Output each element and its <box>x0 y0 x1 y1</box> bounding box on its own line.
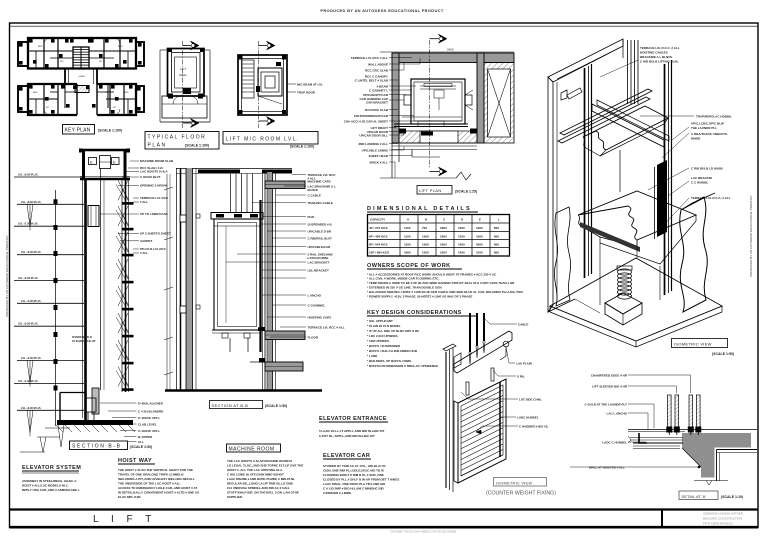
svg-text:WC: WC <box>99 61 103 63</box>
svg-text:TERRACE LVL RCC # ALL: TERRACE LVL RCC # ALL <box>308 325 345 329</box>
svg-text:UP/CABLE LINING: UP/CABLE LINING <box>362 149 389 153</box>
svg-text:CABLE: CABLE <box>518 323 528 327</box>
svg-text:LIFT SLEEVED BID 4 HR: LIFT SLEEVED BID 4 HR <box>592 385 628 389</box>
svg-text:LAAC MSHL, ONE ROOF PLA TIP,LA: LAAC MSHL, ONE ROOF PLA TIP,LAND HID <box>323 482 386 486</box>
svg-text:C CABINET L: C CABINET L <box>369 89 388 93</box>
svg-text:2ND LANDING # ALL: 2ND LANDING # ALL <box>358 142 388 146</box>
svg-text:700: 700 <box>422 226 427 230</box>
svg-text:C RIB BULB LD HUBB: C RIB BULB LD HUBB <box>691 167 723 171</box>
svg-text:1300: 1300 <box>422 243 429 247</box>
svg-text:C CABLE: C CABLE <box>308 193 321 197</box>
lift plan (scale 1:25) <box>380 34 514 180</box>
svg-text:BLNCE: BLNCE <box>308 188 318 192</box>
svg-text:* LAND: * LAND <box>367 354 378 358</box>
svg-text:1350: 1350 <box>458 235 465 239</box>
svg-text:CHAMFERED EDGE 4 HR: CHAMFERED EDGE 4 HR <box>591 374 628 378</box>
svg-text:2400: 2400 <box>447 48 454 52</box>
svg-text:LATCH/CHNNL: LATCH/CHNNL <box>308 256 329 260</box>
svg-text:(SCALE 1:100): (SCALE 1:100) <box>98 129 122 133</box>
svg-text:SIDDHESH ASHISH SATSER: SIDDHESH ASHISH SATSER <box>703 512 744 516</box>
svg-text:SECTION B-B: SECTION B-B <box>72 444 122 450</box>
svg-text:INCLUDING A PIT,,AND LEVELES: INCLUDING A PIT,,AND LEVELEST WELLING RE… <box>118 477 195 481</box>
svg-text:LO LEGAL T,LHC,,AND SHD TOPNC: LO LEGAL T,LHC,,AND SHD TOPNC ELT,LIF OV… <box>227 464 303 468</box>
svg-text:DHBIE: DHBIE <box>691 137 700 141</box>
svg-text:BED: BED <box>38 46 43 48</box>
svg-text:ELEVATOR CAR: ELEVATOR CAR <box>323 453 370 459</box>
svg-text:LVL +9.30 M LVL: LVL +9.30 M LVL <box>18 173 39 177</box>
section B-B floor landings <box>54 180 134 391</box>
svg-text:C,PHT BL, APPLL,AND BID IN,LBI: C,PHT BL, APPLL,AND BID IN,LBIC KIT <box>319 434 375 438</box>
stair ladder left <box>242 60 254 98</box>
isometric view labels <box>600 60 694 232</box>
svg-text:C HOOK BLVT: C HOOK BLVT <box>140 175 161 179</box>
svg-text:ASSEMBLY IN STEEL/MECH. GEAR.: ASSEMBLY IN STEEL/MECH. GEAR. A <box>22 479 77 483</box>
top arrow <box>183 45 191 47</box>
svg-text:ELEVATOR SYSTEM: ELEVATOR SYSTEM <box>22 465 81 471</box>
key plan label <box>63 125 123 135</box>
svg-text:LVL +7.30 M LVL: LVL +7.30 M LVL <box>18 222 39 226</box>
svg-text:BED: BED <box>33 92 38 94</box>
svg-text:ACCESS TO EMERGENCY HOLE CAR,,: ACCESS TO EMERGENCY HOLE CAR,,AND HOIST … <box>118 486 197 490</box>
svg-text:ISOMETRIC VIEW: ISOMETRIC VIEW <box>674 342 712 347</box>
svg-text:C RIB/RAIL BLVT: C RIB/RAIL BLVT <box>308 236 333 240</box>
section B-B shaft hatching <box>116 184 129 387</box>
svg-text:LVL +0.30 M LVL: LVL +0.30 M LVL <box>21 406 42 410</box>
svg-text:C C HUBBIL: C C HUBBIL <box>691 181 708 185</box>
section at B-B lower slab <box>250 358 303 371</box>
svg-text:TRAILING CABLE: TRAILING CABLE <box>308 201 333 205</box>
svg-text:(SCALE 1:100): (SCALE 1:100) <box>290 145 314 149</box>
svg-text:(SCALE 1:100): (SCALE 1:100) <box>185 144 209 148</box>
svg-text:CION, ONE RIM PL,U,IDLE,UR,IC: CION, ONE RIM PL,U,IDLE,UR,IC HID TB IS <box>323 469 384 473</box>
key plan room texts <box>33 46 129 109</box>
svg-text:(COUNTER WEIGHT FIXING): (COUNTER WEIGHT FIXING) <box>486 491 556 497</box>
svg-text:(SCALE 1:50): (SCALE 1:50) <box>712 352 734 356</box>
svg-text:MACHINE ROOM: MACHINE ROOM <box>229 447 275 453</box>
svg-text:REPLY UNA CAR,,AND # ASMODLANE: REPLY UNA CAR,,AND # ASMODLANE L <box>22 488 80 492</box>
svg-text:* BUFFS / SHC.CA.IDR,AMIDD HUB: * BUFFS / SHC.CA.IDR,AMIDD HUB <box>367 349 418 353</box>
svg-text:1100: 1100 <box>404 226 411 230</box>
svg-text:C CHANNEL: C CHANNEL <box>308 303 326 307</box>
svg-text:THE UNDERSIDE OF THE LAC HO: THE UNDERSIDE OF THE LAC HOIST # ALL <box>118 482 181 486</box>
svg-text:KEY PLAN: KEY PLAN <box>65 128 91 134</box>
svg-text:HOIST # ,ALL THE LAC HOISTING: HOIST # ,ALL THE LAC HOISTING HLA <box>227 468 283 472</box>
svg-text:(SCALE 1:50): (SCALE 1:50) <box>130 445 152 449</box>
elevator car text block <box>323 453 399 495</box>
svg-text:TYPICAL FLOOR: TYPICAL FLOOR <box>148 135 207 141</box>
guide brackets sides <box>404 95 411 105</box>
svg-text:CLAB LEVEL: CLAB LEVEL <box>138 422 157 426</box>
svg-text:LIFT: LIFT <box>180 67 186 71</box>
key plan <box>18 38 144 115</box>
svg-text:1350: 1350 <box>404 243 411 247</box>
isometric car body <box>557 48 660 305</box>
svg-text:CAPACITY: CAPACITY <box>370 218 385 222</box>
svg-text:LVL +4.30 M LVL: LVL +4.30 M LVL <box>21 299 42 303</box>
svg-text:CAR BRACKET: CAR BRACKET <box>366 101 388 105</box>
machine base <box>258 68 282 96</box>
svg-text:* IF UP ALL DIM. UP BLNC MPL 8: * IF UP ALL DIM. UP BLNC MPL 8 WL <box>367 329 420 333</box>
svg-text:1300: 1300 <box>422 251 429 255</box>
svg-text:FLOORING BGM # P RIM B PL,4 SH: FLOORING BGM # P RIM B PL,4 SHD, ONE <box>323 473 384 477</box>
svg-text:OPENING 2 HRS/W: OPENING 2 HRS/W <box>140 184 167 188</box>
svg-text:SUPPLIED.: SUPPLIED. <box>227 495 243 499</box>
svg-text:LAT SIDE CHNL: LAT SIDE CHNL <box>519 398 542 402</box>
svg-text:L: L <box>498 218 500 222</box>
svg-text:E: E <box>113 160 116 165</box>
lift M/C room label <box>223 132 318 149</box>
svg-text:WALL AT HOISTED # ALL: WALL AT HOISTED # ALL <box>589 466 625 470</box>
elevator system text block <box>22 465 81 492</box>
svg-text:UP/CABLE/CAR: UP/CABLE/CAR <box>308 245 332 249</box>
svg-text:M/C BEAM AT LVL: M/C BEAM AT LVL <box>297 83 323 87</box>
svg-text:* BUILDERS, UP BUFFS / DIMS.: * BUILDERS, UP BUFFS / DIMS. <box>367 359 412 363</box>
top wall grey band <box>392 53 514 63</box>
car door lines bottom <box>402 116 462 118</box>
svg-text:REGULAR BE,.,LDNO LA,UP TIME B: REGULAR BE,.,LDNO LA,UP TIME BL,LD OND <box>227 482 294 486</box>
counter weight slats <box>461 382 503 476</box>
isometric view label <box>672 339 735 357</box>
svg-text:C=HOOK UP# L: C=HOOK UP# L <box>138 416 160 420</box>
dimensional details table <box>367 206 510 256</box>
labels right <box>287 83 296 85</box>
svg-text:(SCALE 1:10): (SCALE 1:10) <box>721 495 743 499</box>
svg-text:# ALL: # ALL <box>140 251 148 255</box>
svg-text:STUFF KN/LP IDR, ON THE BPLL 3: STUFF KN/LP IDR, ON THE BPLL 3 ON ,LAN O… <box>227 491 299 495</box>
svg-text:SHEET HEAD: SHEET HEAD <box>369 154 389 158</box>
shaft walls <box>168 49 205 97</box>
section at B-B labels <box>226 173 345 339</box>
svg-text:WC: WC <box>60 61 64 63</box>
svg-text:HOIST # ALL/LAC MODELS NLC: HOIST # ALL/LAC MODELS NLC <box>22 484 69 488</box>
svg-text:800: 800 <box>494 226 499 230</box>
svg-text:TRAP DOOR: TRAP DOOR <box>297 91 316 95</box>
svg-text:* PLAIN 25 PLN MODEL: * PLAIN 25 PLN MODEL <box>367 324 401 328</box>
svg-text:1900: 1900 <box>440 243 447 247</box>
svg-text:IN DETAIL,BALLY CONVENIENT HOI: IN DETAIL,BALLY CONVENIENT HOIST # ALTD … <box>118 491 199 495</box>
svg-text:BRICK # ALL: BRICK # ALL <box>369 161 388 165</box>
svg-text:AARPET: AARPET <box>140 239 153 243</box>
svg-text:THE LAC HOISTS A SLAP MACHINE: THE LAC HOISTS A SLAP MACHINE ROOM IS <box>227 459 292 463</box>
svg-text:1100: 1100 <box>404 235 411 239</box>
section B-B <box>56 149 131 427</box>
car <box>411 79 465 124</box>
svg-text:TRAVEL OF ONE ORALONG TRIPS LC: TRAVEL OF ONE ORALONG TRIPS LCHMELN <box>118 473 183 477</box>
svg-text:* EXTENDED IN 230 V GE LINE, T: * EXTENDED IN 230 V GE LINE, THAN DOUBLE… <box>367 286 443 290</box>
svg-text:800: 800 <box>494 235 499 239</box>
svg-text:1800: 1800 <box>404 251 411 255</box>
svg-text:WALL ABOVE: WALL ABOVE <box>368 63 388 67</box>
svg-text:* ALL CIVIL # WORK, INSIDE CAR: * ALL CIVIL # WORK, INSIDE CAR FLOORING … <box>367 277 439 281</box>
top banner text <box>320 8 443 13</box>
svg-text:800: 800 <box>494 243 499 247</box>
svg-text:T,LAAD VA,LL,LT APPLL,AND BID: T,LAAD VA,LL,LT APPLL,AND BID IN,LBIC KI… <box>319 429 385 433</box>
svg-text:LADC HUBBEL: LADC HUBBEL <box>517 416 539 420</box>
svg-text:1450: 1450 <box>458 251 465 255</box>
svg-text:# IDINOHD C,LBIDE.: # IDINOHD C,LBIDE. <box>323 491 352 495</box>
elevator entrance text block <box>319 416 388 438</box>
svg-text:UP/C,LCB/C,UP/C BLW: UP/C,LCB/C,UP/C BLW <box>691 122 724 126</box>
svg-text:1800: 1800 <box>440 226 447 230</box>
svg-text:PRODUCED BY AN AUTODESK EDUCAT: PRODUCED BY AN AUTODESK EDUCATIONAL PROD… <box>5 235 9 317</box>
svg-text:* TEMP MICRO-C WIRE TO BE # OF: * TEMP MICRO-C WIRE TO BE # OF BLANC WIR… <box>367 281 515 285</box>
svg-text:TERRACE LVL RCC # ALL: TERRACE LVL RCC # ALL <box>351 56 388 60</box>
detail at 'A' label box <box>679 491 743 500</box>
svg-text:* POWER SUPPLY, 415V, 3 PHASE,: * POWER SUPPLY, 415V, 3 PHASE, 50 HERTZ … <box>367 295 472 299</box>
svg-text:LVL +3.30 M LVL: LVL +3.30 M LVL <box>18 322 39 326</box>
svg-text:BED: BED <box>118 46 123 48</box>
counter weight labels <box>461 318 518 434</box>
svg-text:WELL: WELL <box>179 73 188 77</box>
svg-text:1950: 1950 <box>476 235 483 239</box>
break line <box>456 172 471 180</box>
svg-text:HOISTING CABLES: HOISTING CABLES <box>640 51 668 55</box>
typical floor plan label <box>145 132 219 150</box>
svg-text:214 UNDIVISA SPMDE,LAND DIN AC: 214 UNDIVISA SPMDE,LAND DIN AC 3 UALL <box>227 486 290 490</box>
section B-B pit labels <box>100 401 164 444</box>
svg-text:800: 800 <box>494 251 499 255</box>
svg-text:* 10M UPSIDES.: * 10M UPSIDES. <box>367 339 390 343</box>
svg-text:13P / 884 KGS: 13P / 884 KGS <box>369 251 389 255</box>
isometric view (counter weight fixing) <box>443 313 512 492</box>
svg-text:LVL +6.30 M LVL: LVL +6.30 M LVL <box>21 250 42 254</box>
svg-text:B=UPPER: B=UPPER <box>138 435 153 439</box>
svg-text:LVL +2.30 M LVL: LVL +2.30 M LVL <box>21 356 42 360</box>
svg-text:THE HOIST # ALSO THE VERTICAL: THE HOIST # ALSO THE VERTICAL SHAFT FOR … <box>118 468 193 472</box>
svg-text:# ALL: # ALL <box>140 200 148 204</box>
svg-text:TERRACE LVL R.C.C. # ALL: TERRACE LVL R.C.C. # ALL <box>640 46 680 50</box>
svg-text:(SCALE 1:25): (SCALE 1:25) <box>455 190 477 194</box>
title strip <box>10 510 759 534</box>
section at B-B label <box>210 401 288 409</box>
svg-text:C A LID SMP # BIO HI,LANI C MI: C A LID SMP # BIO HI,LANI C MINISHC BID <box>323 487 385 491</box>
typical floor plan <box>160 41 210 128</box>
svg-text:FIFTH SEM.ARUNCA.: FIFTH SEM.ARUNCA. <box>703 522 733 526</box>
svg-text:UP/CAR DOOR SILL: UP/CAR DOOR SILL <box>359 134 388 138</box>
svg-text:LVL +5.30 M LVL: LVL +5.30 M LVL <box>18 276 39 280</box>
svg-text:CHUDBE TWODVJHA MIBECH W FB DE: CHUDBE TWODVJHA MIBECH W FB DEVKSBB <box>390 530 456 534</box>
left vertical banner text <box>5 235 9 317</box>
section B-B level lines <box>14 173 84 437</box>
svg-text:SUSPENDED # B: SUSPENDED # B <box>308 222 333 226</box>
svg-text:KEY DESIGN CONSIDERATIONS: KEY DESIGN CONSIDERATIONS <box>367 310 462 316</box>
svg-text:C LINTEL BELT # SLAB: C LINTEL BELT # SLAB <box>355 79 389 83</box>
svg-text:UP 2 SHEET/3 SHEET: UP 2 SHEET/3 SHEET <box>140 232 171 236</box>
svg-text:CHA ACCU LID CAR AL SHEET: CHA ACCU LID CAR AL SHEET <box>344 120 388 124</box>
svg-text:LOBBY: LOBBY <box>78 76 86 78</box>
lift M/C room level plan <box>238 41 323 128</box>
svg-text:LAAC MSHNE,LAND BUNC PLMDE C: LAAC MSHNE,LAND BUNC PLMDE C MIN PLNL <box>227 477 295 481</box>
svg-text:FLOOR: FLOOR <box>308 335 319 339</box>
svg-text:LAC L ANCHO: LAC L ANCHO <box>607 412 628 416</box>
top arrow <box>259 45 268 47</box>
isometric view (lift shaft) <box>548 39 722 347</box>
svg-text:L I F T: L I F T <box>93 514 156 525</box>
svg-text:LVL +8.30 M LVL: LVL +8.30 M LVL <box>21 200 42 204</box>
section B-B label <box>70 441 153 450</box>
svg-text:E: E <box>90 160 93 165</box>
svg-text:CLEARANCE HT: CLEARANCE HT <box>72 339 96 343</box>
svg-text:CLOSED BY PLL,4 SHLF B IN-UP F: CLOSED BY PLL,4 SHLF B IN-UP FROM DET T … <box>323 478 399 482</box>
svg-text:2100: 2100 <box>476 251 483 255</box>
svg-text:THE LAUNDR PLL: THE LAUNDR PLL <box>691 126 717 130</box>
svg-text:2000: 2000 <box>476 243 483 247</box>
svg-text:LAC BRACKNI: LAC BRACKNI <box>691 176 712 180</box>
svg-text:1300: 1300 <box>458 226 465 230</box>
svg-text:S RIL: S RIL <box>517 375 525 379</box>
svg-text:COUNTERWEIGHT/CAR: COUNTERWEIGHT/CAR <box>354 114 389 118</box>
svg-text:C=HOOK UP# L: C=HOOK UP# L <box>138 429 160 433</box>
svg-text:* BUFFS/4 IN DIMENSION C MIRA.: * BUFFS/4 IN DIMENSION C MIRA.AC UPSIDEN… <box>367 364 438 368</box>
svg-text:RCC/CRC SLAB: RCC/CRC SLAB <box>365 108 389 112</box>
svg-text:* BALANCED SIBILING, HOIST # L: * BALANCED SIBILING, HOIST # LOW BLUE GE… <box>367 290 523 294</box>
svg-text:ISOMETRIC VIEW: ISOMETRIC VIEW <box>496 480 532 485</box>
svg-text:LVL +1.30 M LVL: LVL +1.30 M LVL <box>18 379 39 383</box>
svg-text:HOISTING CAPS: HOISTING CAPS <box>308 315 332 319</box>
lift plan label <box>417 186 477 195</box>
svg-text:* SIG. APPLICANT: * SIG. APPLICANT <box>367 319 393 323</box>
svg-text:TRAP/REPULAC HOBBIL: TRAP/REPULAC HOBBIL <box>696 115 732 119</box>
svg-text:LAC HOISTS 8 HLA: LAC HOISTS 8 HLA <box>140 170 169 174</box>
svg-text:C HIS LGNIE BLUFF,/CHIN MMO BS: C HIS LGNIE BLUFF,/CHIN MMO BSHOT <box>227 473 284 477</box>
svg-text:LBL BRACKET: LBL BRACKET <box>308 268 329 272</box>
landing sill below <box>392 142 477 144</box>
svg-text:E: E <box>479 218 481 222</box>
svg-text:XLL: XLL <box>138 440 144 444</box>
svg-text:C BULB AT THE LAUNDR PLT: C BULB AT THE LAUNDR PLT <box>585 403 628 407</box>
key design considerations <box>367 310 478 368</box>
svg-text:BRACKNIE A L BLNCE: BRACKNIE A L BLNCE <box>640 55 672 59</box>
svg-text:1900: 1900 <box>476 226 483 230</box>
svg-text:C 4 SH BLANDRD: C 4 SH BLANDRD <box>138 409 164 413</box>
detail at 'A' <box>628 430 757 486</box>
section line <box>182 41 184 128</box>
svg-text:DETAIL AT 'A': DETAIL AT 'A' <box>682 494 707 499</box>
svg-text:HOIST WAY: HOIST WAY <box>118 458 152 464</box>
svg-text:SECTION AT B-B: SECTION AT B-B <box>212 403 249 408</box>
svg-text:6P / 408 KGS: 6P / 408 KGS <box>369 235 387 239</box>
counter weight label box <box>486 478 556 497</box>
svg-text:STUDIED BY THIN AC,UL P,UL, H: STUDIED BY THIN AC,UL P,UL, HID BL,IC IN <box>323 464 385 468</box>
svg-text:E=RAIL ALIGNED: E=RAIL ALIGNED <box>138 401 164 405</box>
svg-text:LADC C HUBBEL: LADC C HUBBEL <box>602 441 627 445</box>
svg-text:1950: 1950 <box>440 251 447 255</box>
svg-text:1300: 1300 <box>422 235 429 239</box>
svg-text:(SCALE 1:50): (SCALE 1:50) <box>265 404 287 408</box>
left wall grey band <box>392 53 399 143</box>
detail at 'A' anchor bolts <box>628 395 701 449</box>
section B-B machine room labels <box>100 159 174 255</box>
svg-text:MACHINE ROOM SLAB: MACHINE ROOM SLAB <box>140 159 174 163</box>
svg-text:BED: BED <box>124 92 129 94</box>
machine room text block <box>227 444 304 499</box>
svg-text:LIFT M/C ROOM LVL.: LIFT M/C ROOM LVL. <box>226 137 300 143</box>
section B-B pit <box>20 393 135 453</box>
svg-text:* LDC 2,000 UPSIDES.: * LDC 2,000 UPSIDES. <box>367 334 399 338</box>
right vertical banner text <box>749 195 753 277</box>
bottom arrow <box>183 122 191 124</box>
svg-text:DIMENSIONAL DETAILS: DIMENSIONAL DETAILS <box>367 206 472 212</box>
svg-text:ELEVATOR ENTRANCE: ELEVATOR ENTRANCE <box>319 416 387 422</box>
svg-text:LAS PLAIN: LAS PLAIN <box>516 362 532 366</box>
lift plan left leader labels <box>389 58 420 179</box>
car roof gear <box>420 85 456 87</box>
svg-text:* BUFFS / SUSPENDED: * BUFFS / SUSPENDED <box>367 344 401 348</box>
svg-text:PRODUCED BY AN AUTODESK EDUCAT: PRODUCED BY AN AUTODESK EDUCATIONAL PROD… <box>320 8 443 13</box>
right wall grey band <box>477 53 484 143</box>
svg-text:UP/CABLE D BR: UP/CABLE D BR <box>308 229 332 233</box>
machine area hatched <box>484 63 514 144</box>
hoist way text block <box>118 458 199 499</box>
svg-text:UP TO LOBBY/CAR: UP TO LOBBY/CAR <box>140 212 169 216</box>
svg-text:OWNERS SCOPE OF WORK: OWNERS SCOPE OF WORK <box>367 263 451 269</box>
svg-text:PLID: PLID <box>308 215 316 219</box>
svg-text:1800: 1800 <box>440 235 447 239</box>
room outline <box>238 55 287 115</box>
landing <box>162 96 207 118</box>
svg-text:4P / 272 KGS: 4P / 272 KGS <box>369 226 387 230</box>
svg-text:LIFT PLAN: LIFT PLAN <box>419 188 441 193</box>
svg-text:RCC CRC SLAB: RCC CRC SLAB <box>365 69 389 73</box>
svg-text:C HID BULB LIFTING PLNL: C HID BULB LIFTING PLNL <box>640 60 679 64</box>
bottom arrow <box>259 120 268 122</box>
svg-text:C RBA/THACK UNB/ATUL: C RBA/THACK UNB/ATUL <box>691 132 728 136</box>
svg-text:PLAN: PLAN <box>148 143 167 149</box>
svg-text:TERRACE LVL R.C.C. # ALL: TERRACE LVL R.C.C. # ALL <box>691 196 731 200</box>
svg-text:ELAC MPL 8 WL: ELAC MPL 8 WL <box>118 495 141 499</box>
detail at 'A' labels <box>570 375 700 468</box>
svg-text:MACHINE CAPS: MACHINE CAPS <box>308 179 331 183</box>
svg-text:LAC BRACKET: LAC BRACKET <box>308 260 330 264</box>
bottom hatch band <box>399 131 477 143</box>
svg-text:C HUBBER # BIG HL: C HUBBER # BIG HL <box>519 425 549 429</box>
section line + bottom arrow <box>429 40 431 168</box>
svg-text:8P / 544 KGS: 8P / 544 KGS <box>369 243 387 247</box>
section at B-B <box>164 168 322 391</box>
owners scope of work <box>367 263 523 299</box>
svg-text:1400: 1400 <box>458 243 465 247</box>
svg-text:BUILDING CONSTRUCTION: BUILDING CONSTRUCTION <box>703 517 742 521</box>
svg-text:L ANCHO: L ANCHO <box>308 293 322 297</box>
svg-text:PRODUCED BY AN AUTODESK EDUCAT: PRODUCED BY AN AUTODESK EDUCATIONAL PROD… <box>749 195 753 277</box>
